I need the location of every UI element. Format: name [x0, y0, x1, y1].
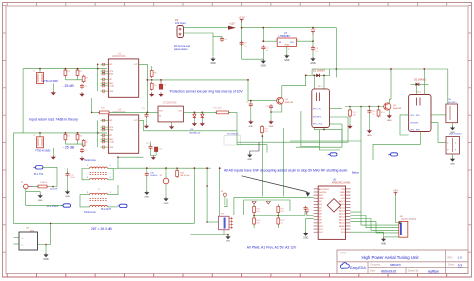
ground ard [305, 231, 307, 233]
svg-text:2: 2 [110, 165, 111, 167]
wire top runs [290, 140, 361, 142]
svg-text:+5V: +5V [393, 189, 398, 193]
resistor R12 [261, 127, 264, 133]
wire rf main [118, 156, 144, 158]
annotation arrow [242, 176, 308, 193]
svg-text:c: c [388, 154, 389, 156]
svg-text:1: 1 [87, 165, 88, 167]
resistor R1A [38, 185, 47, 188]
svg-text:AREF: AREF [339, 225, 345, 228]
power flag +12V [241, 20, 243, 23]
svg-text:GND: GND [43, 258, 49, 261]
svg-text:D3 1N4001: D3 1N4001 [414, 79, 427, 82]
resistor R15 [253, 207, 256, 213]
wire trimmer [224, 199, 227, 207]
wire route f [144, 130, 238, 132]
resistor R18 [277, 218, 280, 224]
svg-text:Balun: Balun [352, 171, 360, 175]
svg-text:Sheet:: Sheet: [448, 263, 455, 266]
wire route a [237, 141, 310, 143]
ground T2 [52, 148, 54, 155]
wire into U7 IN [263, 40, 277, 42]
svg-text:10k: 10k [353, 115, 356, 117]
svg-text:BZX84C10: BZX84C10 [190, 132, 201, 134]
wire riser x210 [206, 168, 208, 222]
wire j1 row [33, 186, 38, 188]
svg-text:- 25 dB: - 25 dB [63, 146, 75, 150]
wire rl2 misc [349, 107, 351, 111]
wire R tops2 [64, 141, 66, 144]
svg-text:Date:: Date: [370, 269, 376, 272]
ground C9 [250, 120, 252, 122]
capacitor C7 [241, 28, 243, 60]
svg-text:RST: RST [341, 195, 346, 197]
svg-text:10k: 10k [264, 131, 267, 133]
svg-text:GND: GND [38, 200, 43, 202]
wire q1 drain [282, 75, 306, 97]
connector P4 [177, 26, 184, 38]
svg-text:10k: 10k [256, 222, 259, 224]
svg-text:D2 1N4007: D2 1N4007 [313, 70, 326, 73]
wire det to ad [202, 111, 216, 113]
sensor dot [223, 193, 226, 196]
ground C3 [160, 92, 162, 94]
svg-text:wg9flyer: wg9flyer [428, 269, 439, 273]
capacitor C6 [262, 28, 264, 42]
vertical pin bus U1 [97, 64, 99, 91]
power flag +5V [312, 32, 314, 35]
svg-text:1k: 1k [281, 222, 283, 224]
ground U3 [171, 122, 173, 125]
wire riser x361 [360, 107, 362, 213]
wire grid loop [244, 200, 290, 215]
wire 12V bus [242, 28, 337, 78]
capacitor C16 [146, 172, 148, 174]
svg-text:GND: GND [248, 126, 253, 128]
wire ard a1 [351, 219, 399, 231]
jack J2 [163, 178, 169, 184]
wire rev bus [13, 132, 107, 134]
ground T1 [52, 84, 54, 91]
ground P4 [212, 57, 214, 59]
svg-text:INM: INM [109, 139, 113, 141]
wire rl2 pins right [431, 114, 446, 116]
wire U7 gnd pin [286, 46, 288, 53]
svg-text:ADC2: ADC2 [339, 216, 346, 219]
svg-text:OUT: OUT [290, 42, 295, 44]
wire fwd bus [23, 68, 107, 70]
wire R tops [64, 77, 66, 80]
svg-text:X1: X1 [221, 191, 223, 193]
svg-text:LTC5507ES6: LTC5507ES6 [163, 102, 177, 104]
ground trimmer [227, 235, 229, 237]
capacitor C10 [270, 104, 272, 106]
wire grid [253, 213, 255, 218]
zener D4 [193, 114, 196, 117]
ground J1 [26, 189, 40, 194]
svg-text:SO239 1: SO239 1 [448, 102, 457, 104]
wire riser x195 [193, 168, 195, 223]
svg-text:2: 2 [110, 192, 111, 194]
svg-text:High Power Aerial Tuning Unit: High Power Aerial Tuning Unit [361, 255, 419, 260]
wire left riser2 [12, 133, 14, 224]
resistor R10 [100, 111, 110, 114]
svg-text:Input return loss 74dB in theo: Input return loss 74dB in theory [29, 117, 78, 121]
wire ard a2 [351, 216, 399, 228]
svg-text:GND: GND [164, 203, 169, 205]
wire q2 drain [389, 69, 391, 103]
transformer T4 lower [90, 205, 108, 207]
svg-text:26T = 26.3 dB: 26T = 26.3 dB [91, 227, 113, 231]
diode D3 [411, 83, 416, 85]
ground U5 [452, 123, 454, 126]
svg-text:10uF/16: 10uF/16 [150, 175, 158, 177]
capacitor C16a [67, 172, 69, 174]
svg-text:+5V: +5V [341, 198, 345, 200]
wire U3 out [183, 111, 194, 113]
resistor R13 [349, 110, 352, 116]
svg-text:GND: GND [450, 163, 455, 165]
svg-text:GND: GND [269, 126, 274, 128]
svg-text:Company:: Company: [370, 263, 381, 266]
capacitor C2 [81, 148, 83, 150]
svg-text:PL1 TX1: PL1 TX1 [34, 173, 44, 176]
balun box [446, 137, 460, 155]
ground route [249, 153, 251, 155]
svg-text:4P1 - 9P3: 4P1 - 9P3 [410, 115, 420, 117]
wire rl1 right pins [330, 108, 343, 110]
mcu U6 ARDUINO NANO [318, 186, 345, 239]
wire rl2 coil top [416, 84, 418, 94]
resistor R14 [377, 110, 380, 116]
svg-text:Protection zenner low per ring: Protection zenner low per ring has max i… [170, 89, 244, 93]
EasyEDA logo [340, 263, 349, 269]
svg-text:R11 100k: R11 100k [213, 108, 221, 110]
resistor R2 [64, 70, 67, 75]
wire left riser [22, 69, 24, 133]
svg-text:NF 0.25w: NF 0.25w [181, 175, 190, 177]
svg-text:4P2/2P2: 4P2/2P2 [410, 123, 419, 125]
wire U7 OUT [296, 40, 313, 42]
svg-text:2020-03-07: 2020-03-07 [381, 269, 397, 273]
transistor Q2 [384, 103, 391, 110]
wire route c [250, 142, 259, 153]
svg-text:RST: RST [319, 195, 324, 197]
netflag PL1 [35, 166, 43, 169]
jack J1 [24, 184, 29, 189]
wire bottom bus [13, 222, 194, 224]
netflag D13 right [391, 153, 398, 156]
resistor R17 [176, 171, 179, 177]
wire disp 5v [396, 196, 399, 223]
svg-text:GND: GND [367, 135, 372, 137]
svg-text:BSS138: BSS138 [285, 102, 294, 104]
capacitor C9 [250, 102, 252, 104]
svg-text:1.0: 1.0 [458, 256, 463, 260]
svg-text:ADC4: ADC4 [339, 209, 346, 212]
diode D2 [306, 74, 317, 76]
svg-text:C13: C13 [146, 143, 149, 145]
wire route d [266, 145, 268, 153]
capacitor C17 [146, 113, 148, 115]
svg-text:COM: COM [109, 86, 114, 88]
svg-text:GND: GND [261, 64, 267, 67]
svg-text:A0 Pfwd, A1 Prev, A2 5V, A3 12: A0 Pfwd, A1 Prev, A2 5V, A3 12V [247, 245, 297, 249]
wire C4 tap [213, 36, 222, 38]
ground zeners [193, 119, 195, 122]
wire route e [282, 128, 284, 196]
wire rl1 right v [310, 117, 348, 142]
transformer T1 [37, 73, 44, 84]
junctions fwd bus [39, 68, 41, 70]
op-amp U2 AD8307 [108, 115, 138, 153]
svg-text:- 25 dB: - 25 dB [62, 84, 74, 88]
power flag +5V ard [306, 212, 308, 215]
trimmer P1 [219, 216, 230, 229]
ground C13 C14 [150, 150, 152, 156]
capacitor C8 [312, 46, 314, 48]
wire ard d13 [351, 232, 384, 237]
wire ard a0 [351, 222, 399, 233]
svg-text:ADC3/D17: ADC3/D17 [319, 188, 330, 191]
resistor R11 [217, 111, 229, 114]
svg-text:PL2 ANT: PL2 ANT [101, 208, 111, 211]
svg-text:L7805ABV: L7805ABV [279, 35, 291, 38]
svg-text:c: c [328, 154, 329, 156]
wire r8 [151, 69, 153, 71]
svg-text:GND: GND [387, 120, 392, 122]
svg-text:Nextion Display: Nextion Display [402, 218, 417, 221]
capacitor C13 [150, 145, 152, 147]
svg-text:4P1 - 9L2: 4P1 - 9L2 [313, 124, 323, 126]
wire pl2 [26, 204, 63, 206]
power flag VA [252, 202, 256, 205]
relay RL1 [312, 89, 330, 128]
svg-text:GND: GND [319, 198, 324, 200]
ground U4 [45, 245, 47, 253]
svg-text:EasyEDA: EasyEDA [350, 266, 366, 270]
ground C11 [368, 114, 370, 129]
resistor R17b [277, 207, 280, 213]
zener D5 [201, 114, 204, 117]
svg-text:1/1: 1/1 [458, 263, 463, 267]
ground C2 [81, 157, 83, 159]
wire det row [92, 111, 100, 113]
wire gnd run [242, 58, 264, 60]
wire y80 bus [147, 79, 248, 81]
svg-text:GND: GND [310, 62, 316, 65]
svg-text:VIN: VIN [341, 189, 345, 191]
svg-text:1n: 1n [372, 114, 374, 116]
capacitor C14 [154, 147, 157, 152]
vertical pin bus U2 [97, 120, 99, 147]
wire ard 5v [307, 214, 314, 217]
wire ard a3 [351, 212, 399, 225]
svg-text:TITLE: TITLE [340, 252, 346, 254]
ground C10 [270, 120, 272, 122]
resistor R3 [76, 70, 79, 75]
wire route b [237, 144, 267, 146]
svg-text:12V input: 12V input [175, 22, 186, 25]
svg-text:GND: GND [381, 243, 386, 245]
wire det row2 [111, 111, 159, 113]
ic U3 LTC5507 [158, 106, 183, 122]
wire U2 out [139, 120, 144, 131]
svg-text:GND: GND [65, 196, 70, 198]
transformer T4 upper [90, 193, 108, 194]
connector U5 [446, 104, 458, 123]
netflag D13 top [330, 153, 337, 156]
wire zener tops [194, 111, 202, 113]
wire rl1 left frame [301, 111, 319, 147]
ground C1 [81, 92, 83, 94]
svg-text:COM: COM [109, 142, 114, 144]
svg-text:BSS138: BSS138 [393, 108, 402, 110]
capacitor C4 [221, 37, 223, 39]
svg-text:10uF: 10uF [70, 177, 75, 179]
svg-text:T4: T4 [98, 189, 100, 191]
wire riser x220 [219, 168, 221, 216]
wire ant row [118, 167, 211, 169]
wire q2 gate [345, 106, 384, 108]
wire P4 pin2 down [184, 33, 214, 57]
svg-text:400mW: 400mW [50, 189, 57, 191]
wire q1 source [271, 104, 282, 112]
ground U7 [286, 54, 288, 56]
transistor Q1 [277, 97, 284, 104]
ground J2 [165, 184, 167, 197]
transformer T4 core [90, 197, 108, 199]
resistor R6 [76, 134, 79, 139]
svg-text:ADC7: ADC7 [339, 200, 346, 203]
connector U4 [19, 232, 38, 250]
wire rl2 drop [423, 69, 425, 84]
wire C8 gnd [312, 51, 314, 57]
svg-text:4P1 - 9L: 4P1 - 9L [313, 108, 322, 110]
svg-text:Drawn By:: Drawn By: [408, 269, 419, 272]
ground balun [452, 154, 454, 157]
wire 12v main run [312, 68, 448, 70]
svg-text:ADC0: ADC0 [339, 222, 346, 225]
wire bottom bus2 [191, 234, 229, 236]
svg-text:GND: GND [226, 241, 231, 243]
wire +12V rail [241, 23, 243, 28]
ground C8 [312, 57, 314, 59]
resistor R7 [82, 141, 85, 146]
wire route g [236, 131, 238, 145]
svg-text:3: 3 [87, 192, 88, 194]
transformer T3 core [90, 172, 108, 174]
junction 12v a [241, 27, 243, 29]
wire riser x373 [373, 132, 420, 161]
capacitor C3 [159, 84, 163, 89]
svg-text:Toroid core: Toroid core [84, 211, 96, 214]
ground Q2 [388, 110, 390, 114]
wire +5V stem [312, 35, 314, 48]
svg-text:GND: GND [340, 192, 345, 194]
wire U1 out [139, 64, 148, 112]
title block frame [337, 250, 468, 274]
svg-text:ADC5: ADC5 [339, 206, 346, 209]
svg-text:4P1 - 9P3: 4P1 - 9P3 [410, 130, 420, 132]
resistor R16 [253, 218, 256, 224]
svg-text:INM: INM [109, 83, 113, 85]
power flag +5V disp [395, 193, 397, 196]
transformer T3 lower [90, 178, 108, 180]
junctions rev bus [39, 132, 41, 134]
resistor R8 [150, 71, 153, 77]
svg-text:panel socket: panel socket [174, 48, 188, 51]
display U8 [399, 221, 408, 237]
svg-text:ADC1: ADC1 [339, 219, 346, 222]
svg-text:GND: GND [144, 197, 149, 199]
svg-text:3: 3 [110, 177, 111, 179]
ground C6 rail [262, 59, 264, 61]
svg-text:ADC3: ADC3 [339, 212, 346, 215]
svg-text:REV: REV [448, 255, 454, 259]
relay RL2 [409, 95, 431, 132]
wire U4 route [38, 223, 51, 244]
wire rl2 left [400, 115, 409, 135]
svg-text:All AD inputs have 1NF decoupl: All AD inputs have 1NF decoupling added … [224, 168, 348, 172]
wire pl1 [43, 166, 50, 168]
wire route h [234, 197, 314, 215]
resistor R4 [82, 76, 85, 81]
svg-text:4: 4 [87, 177, 88, 179]
svg-text:U5B SO239 2: U5B SO239 2 [449, 134, 463, 136]
svg-text:GND: GND [284, 59, 290, 62]
wire rl1 top [311, 69, 313, 75]
junction ant row [146, 167, 148, 169]
svg-text:FT50-43 SMD: FT50-43 SMD [35, 150, 50, 153]
transformer T3 upper [90, 167, 108, 169]
capacitor C1 [81, 84, 83, 86]
op-amp U1 AD8307 [108, 59, 138, 97]
transformer T2 [37, 137, 44, 148]
svg-text:+12V: +12V [229, 22, 235, 25]
svg-text:GND: GND [285, 45, 290, 47]
junction rl1 [335, 68, 337, 70]
svg-text:FT50-43 SMD: FT50-43 SMD [43, 80, 58, 83]
svg-text:SBKWX: SBKWX [390, 263, 401, 267]
wire coil joins [82, 169, 90, 180]
svg-text:AD8307ARZ: AD8307ARZ [112, 55, 126, 58]
svg-text:10k: 10k [256, 211, 259, 213]
regulator U7 [277, 38, 296, 46]
svg-text:4P2/2P1: 4P2/2P1 [313, 117, 322, 119]
svg-text:GND: GND [247, 159, 252, 161]
capacitor C11 [368, 109, 370, 111]
svg-text:GND: GND [303, 238, 308, 240]
svg-text:+5V: +5V [311, 27, 316, 31]
wire P4 to +12V arrow [184, 27, 229, 29]
ground C16 [146, 191, 148, 193]
resistor R9 [150, 83, 153, 89]
svg-text:D0/RX0: D0/RX0 [319, 192, 327, 194]
svg-text:C17: C17 [142, 108, 145, 110]
svg-text:+12V: +12V [239, 15, 245, 19]
svg-text:C14: C14 [159, 149, 162, 151]
wire q1 gate [248, 80, 277, 101]
ground R9 [151, 92, 153, 94]
wire t3 to rows [113, 157, 118, 168]
wire u5 feed [447, 69, 449, 104]
ground disp [384, 236, 399, 238]
resistor R5 [64, 134, 67, 139]
wire ard gnd [306, 219, 314, 232]
svg-text:ARDUINO_NANO: ARDUINO_NANO [332, 181, 351, 184]
netlabel +12V arrow [228, 26, 236, 30]
